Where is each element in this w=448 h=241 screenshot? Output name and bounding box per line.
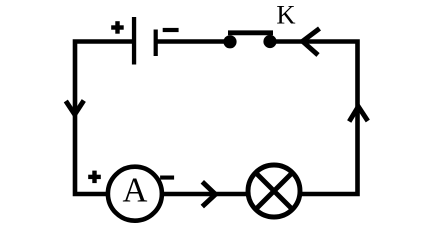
svg-text:A: A: [122, 172, 147, 210]
svg-text:K: K: [276, 0, 295, 30]
